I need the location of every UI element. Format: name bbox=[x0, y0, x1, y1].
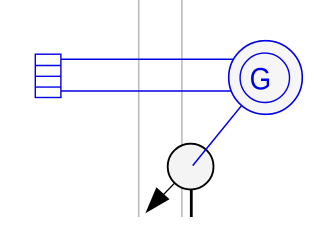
svg-text:G: G bbox=[250, 61, 272, 97]
generator G1 bbox=[229, 41, 303, 115]
wire bbox=[193, 105, 242, 165]
torque source M1 bbox=[168, 144, 214, 190]
connector X1 bbox=[35, 54, 61, 97]
arrow bbox=[145, 183, 174, 213]
wire bbox=[61, 90, 232, 92]
shaft bbox=[190, 189, 193, 217]
wire bbox=[61, 58, 234, 60]
